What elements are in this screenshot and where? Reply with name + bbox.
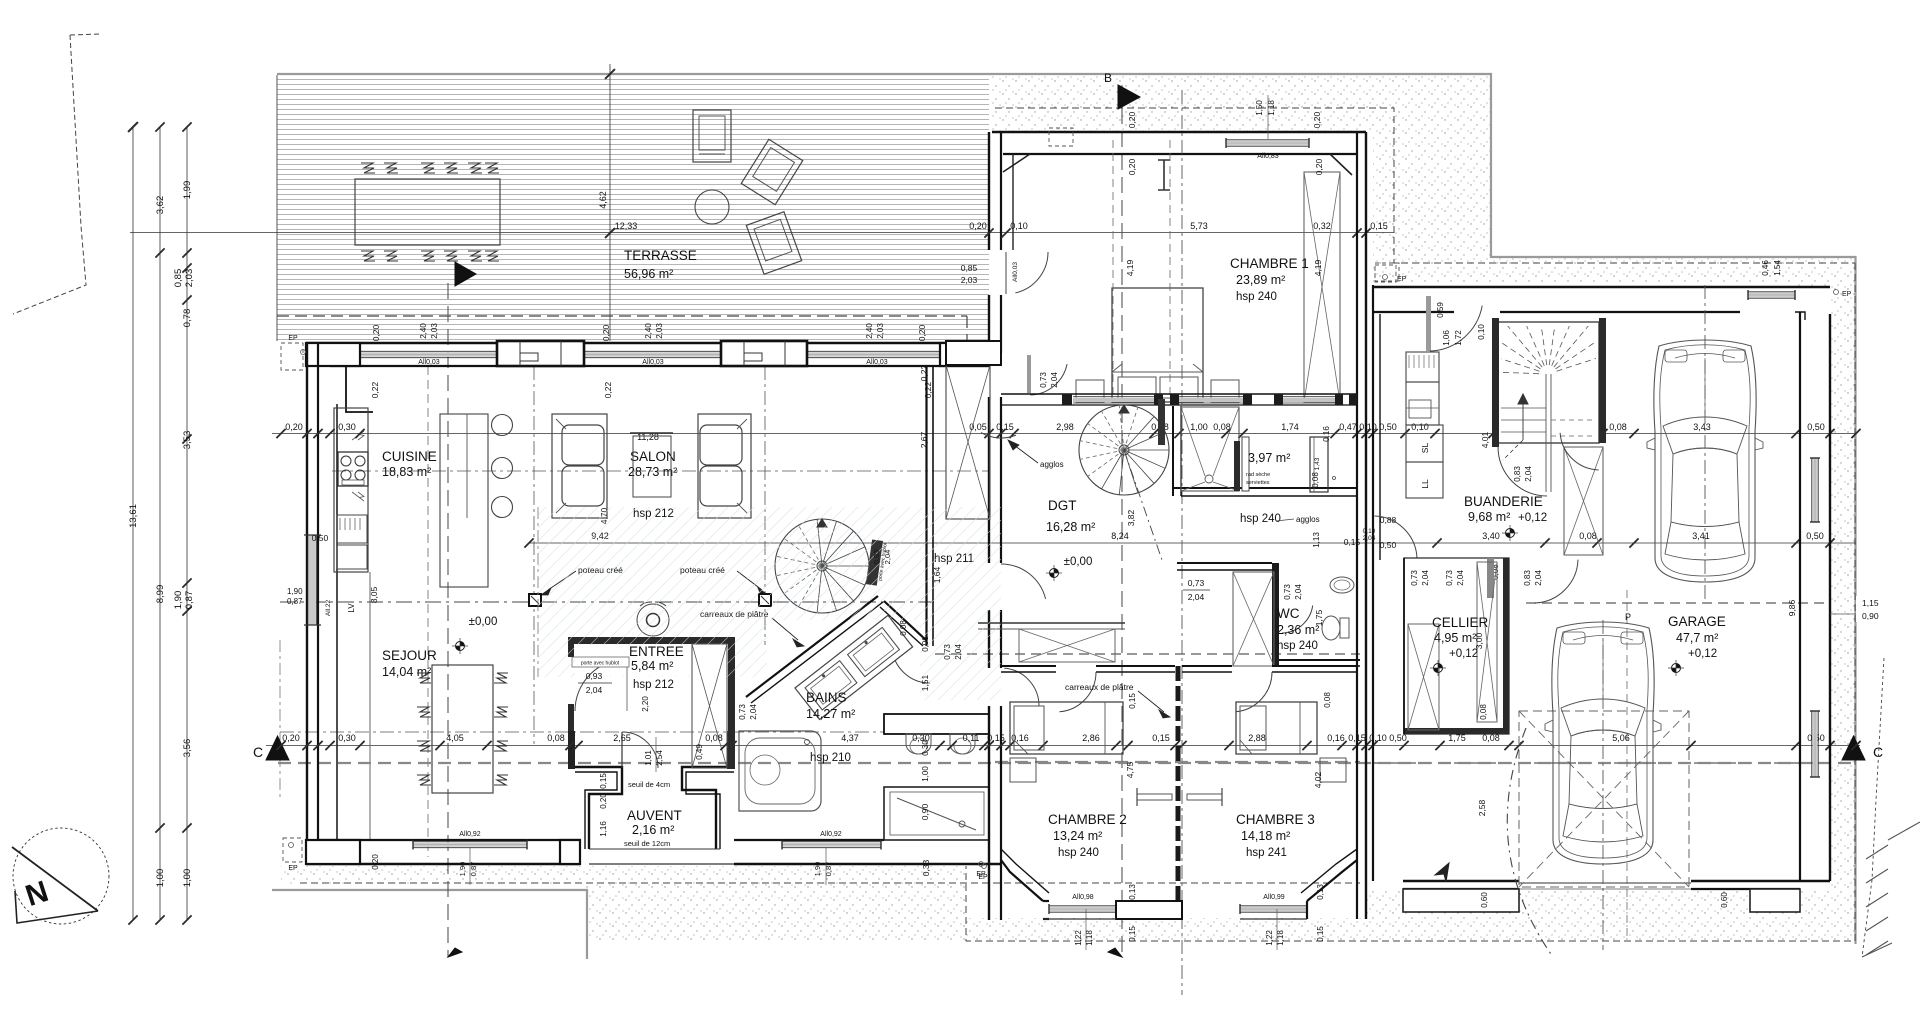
section line C horizontal heavy dashed [278, 762, 1853, 764]
south wall bains inner [734, 839, 884, 841]
svg-text:2,03: 2,03 [184, 269, 195, 288]
grid dashed through sejour y=602 [280, 601, 935, 603]
svg-text:1,43: 1,43 [1314, 457, 1321, 470]
svg-text:13,24 m²: 13,24 m² [1053, 829, 1102, 843]
bains diagonal wall [746, 596, 878, 697]
north wall post 1 [497, 341, 584, 366]
svg-text:1,99: 1,99 [182, 181, 193, 200]
svg-text:0,20: 0,20 [285, 422, 303, 432]
plot boundary dashed top-right [995, 108, 1855, 263]
bedroom south walls + chamfers [1001, 860, 1043, 901]
annex wardrobe X [1564, 447, 1603, 555]
hatch boundary dashdot [537, 507, 539, 677]
bains door arc SE [892, 646, 930, 683]
svg-text:All0,92: All0,92 [459, 831, 481, 838]
svg-text:0,20: 0,20 [917, 324, 927, 341]
svg-text:2,04: 2,04 [1421, 570, 1430, 586]
auvent recess left step wall [575, 767, 622, 849]
grid dashdot through salon y=478 [332, 470, 988, 472]
grid vertical dashdot x765 [764, 366, 766, 645]
svg-text:CHAMBRE 1: CHAMBRE 1 [1230, 256, 1309, 271]
svg-text:5,73: 5,73 [1190, 221, 1208, 231]
svg-text:hsp 212: hsp 212 [633, 679, 674, 691]
svg-text:4,75: 4,75 [1125, 761, 1135, 778]
svg-text:0,08: 0,08 [1311, 472, 1320, 488]
svg-text:4,62: 4,62 [598, 191, 608, 209]
car in garage bottom [1545, 622, 1661, 864]
chambre3 side table [1320, 758, 1346, 782]
plot boundary dashed below house [300, 882, 1360, 884]
bains window [782, 842, 881, 847]
svg-text:0,50: 0,50 [1379, 422, 1397, 432]
svg-text:serviettes: serviettes [1246, 480, 1270, 486]
svg-text:2,04: 2,04 [1524, 466, 1533, 482]
auvent door jamb left dark [568, 731, 575, 769]
svg-text:2,04: 2,04 [1050, 372, 1059, 388]
room 3,97 dark stub + towel radiator [1234, 441, 1240, 491]
stair lower treads [1501, 407, 1546, 409]
bains diagonal wall to east [884, 601, 927, 641]
salon sofa 1 [552, 414, 607, 518]
svg-text:hsp 241: hsp 241 [1246, 847, 1287, 859]
stippled ground texture top-right plot area [992, 76, 1855, 940]
north wall inner line [330, 365, 989, 367]
section line B vertical dashed [1121, 85, 1123, 957]
north wall corner block left [306, 343, 360, 366]
svg-text:1,15: 1,15 [1862, 598, 1879, 608]
svg-text:All0,03: All0,03 [642, 359, 664, 366]
svg-text:+0,12: +0,12 [1518, 512, 1547, 524]
svg-text:seuil de 4cm: seuil de 4cm [628, 780, 670, 789]
hall band windows grey [1073, 398, 1154, 403]
svg-text:0,83: 0,83 [1513, 466, 1522, 482]
svg-text:0,20: 0,20 [371, 324, 381, 341]
north wall post 2 [721, 341, 807, 366]
section marker A triangle [455, 262, 476, 286]
svg-text:2,04: 2,04 [749, 704, 758, 720]
south wall corner block left [306, 840, 360, 864]
svg-text:All0,83: All0,83 [1257, 153, 1279, 160]
svg-text:CHAMBRE 2: CHAMBRE 2 [1048, 812, 1127, 827]
svg-text:1,00: 1,00 [921, 766, 930, 782]
svg-text:2,16 m²: 2,16 m² [632, 823, 674, 837]
auvent door jamb right dark [727, 731, 734, 769]
svg-text:1,50: 1,50 [1255, 100, 1264, 116]
chambre1 side tables [1076, 380, 1104, 402]
svg-text:0,20: 0,20 [1314, 158, 1324, 175]
svg-text:0,73: 0,73 [1039, 372, 1048, 388]
terrace big table [355, 179, 500, 245]
junction wall block [946, 341, 1001, 365]
entree left jamb dark [568, 644, 574, 657]
svg-text:hsp 240: hsp 240 [1236, 291, 1277, 303]
north arrow compass [13, 828, 109, 924]
svg-text:0,83: 0,83 [1523, 570, 1532, 586]
entree right wall dark [728, 644, 735, 769]
svg-text:C: C [1873, 744, 1883, 760]
svg-text:2,86: 2,86 [1082, 733, 1100, 743]
svg-text:WC: WC [1277, 606, 1300, 621]
svg-text:1,00: 1,00 [1190, 422, 1208, 432]
grid dashed garage y=763 [1374, 762, 1830, 764]
svg-text:CELLIER: CELLIER [1432, 615, 1489, 630]
svg-text:0,73: 0,73 [738, 704, 747, 720]
svg-text:4,05: 4,05 [446, 733, 464, 743]
chambre3 chamfer [1307, 860, 1357, 901]
svg-text:3,53: 3,53 [182, 431, 193, 450]
svg-text:2,40: 2,40 [865, 323, 874, 339]
WC fixtures [1322, 616, 1340, 640]
chambre2 side table [1010, 758, 1036, 782]
svg-text:2,04: 2,04 [1534, 570, 1543, 586]
svg-text:CHAMBRE 3: CHAMBRE 3 [1236, 812, 1315, 827]
svg-text:2,04: 2,04 [1456, 570, 1465, 586]
svg-text:0,30: 0,30 [338, 733, 356, 743]
south wall sejour outer [306, 863, 580, 865]
svg-text:28,73 m²: 28,73 m² [628, 465, 677, 479]
garage steps below [1403, 889, 1519, 912]
svg-text:0,10: 0,10 [1477, 324, 1486, 340]
EP annex top [1375, 265, 1396, 282]
tiled floor hatch entree-hall [538, 507, 767, 677]
svg-text:0,73: 0,73 [943, 644, 952, 660]
chambre1 bed [1112, 288, 1203, 402]
svg-text:2,04: 2,04 [586, 685, 603, 695]
svg-text:EP: EP [1842, 291, 1852, 298]
hall top wall band (under chambre1) [1001, 393, 1357, 395]
svg-text:8,05: 8,05 [369, 586, 379, 603]
chambre2 door arc from corridor [1004, 668, 1039, 706]
svg-text:1,01: 1,01 [644, 750, 653, 766]
bedroom middle block [1116, 901, 1182, 919]
grid line x=610 through terrace [609, 64, 611, 341]
west wall interior lining [336, 404, 338, 840]
spiral staircase DGT [1079, 405, 1169, 495]
entree closet [692, 644, 727, 768]
svg-text:0,30: 0,30 [338, 422, 356, 432]
car in garage top [1647, 340, 1763, 582]
svg-text:3,62: 3,62 [155, 196, 166, 215]
svg-text:0,73: 0,73 [1445, 570, 1454, 586]
south wall bains outer [734, 863, 1001, 865]
svg-text:0,87: 0,87 [184, 591, 195, 610]
wing grid dashdot x=1182 [1181, 90, 1183, 995]
svg-text:0,08: 0,08 [899, 620, 908, 636]
svg-text:2,03: 2,03 [961, 275, 978, 285]
bedroom wall shelves [1137, 794, 1172, 800]
svg-text:C: C [253, 744, 263, 760]
svg-text:0,20: 0,20 [969, 221, 987, 231]
east wall of main house [925, 366, 927, 646]
salon dim bracket [630, 432, 673, 434]
svg-text:0,15: 0,15 [1344, 537, 1361, 547]
svg-text:0,90: 0,90 [1862, 611, 1879, 621]
svg-text:0,20: 0,20 [1127, 158, 1137, 175]
svg-text:All0,03: All0,03 [1012, 262, 1019, 282]
svg-text:1,75: 1,75 [1314, 609, 1324, 626]
DGT west door leaf + arc [1027, 355, 1031, 393]
junction closet X [946, 365, 990, 519]
svg-text:1,00: 1,00 [182, 869, 193, 888]
corridor door arcs west wing [981, 433, 1016, 438]
dimension line y=543 [529, 542, 1856, 544]
svg-text:EP: EP [1397, 276, 1407, 283]
chambre2 window [1049, 907, 1116, 912]
bedroom divider wall dashed heavy [1176, 666, 1181, 903]
svg-text:All0,92: All0,92 [820, 831, 842, 838]
svg-text:TERRASSE: TERRASSE [624, 248, 697, 263]
svg-text:1,72: 1,72 [1454, 330, 1463, 346]
svg-text:2,67: 2,67 [919, 431, 929, 448]
corridor door arc to DGT [1001, 564, 1046, 599]
svg-text:0,22: 0,22 [370, 381, 380, 398]
room 3,97 walls [1172, 406, 1174, 496]
svg-text:0,50: 0,50 [312, 533, 329, 543]
stair newel line [1545, 374, 1547, 492]
chambre1 inner chamfers [1003, 154, 1030, 172]
grid dashed bedrooms y=762 right part [995, 761, 1360, 763]
svg-text:0,11: 0,11 [963, 733, 980, 743]
auvent left block [560, 840, 580, 864]
sejour window [413, 842, 527, 847]
salon sofa 2 [698, 414, 751, 518]
auvent recess right step wall [682, 767, 734, 849]
stair up arrow [1522, 400, 1524, 440]
north wall glazing band [360, 352, 497, 357]
chambre3 bed [1236, 702, 1317, 754]
svg-text:3,41: 3,41 [1692, 531, 1710, 541]
svg-text:AUVENT: AUVENT [627, 808, 682, 823]
bedroom top walls [1001, 665, 1056, 667]
svg-text:+0,12: +0,12 [1688, 648, 1717, 660]
terrace decking [277, 76, 989, 340]
svg-text:3,97 m²: 3,97 m² [1248, 451, 1290, 465]
svg-text:0,20: 0,20 [599, 793, 608, 809]
svg-text:±0,00: ±0,00 [469, 616, 498, 628]
svg-text:4,95 m²: 4,95 m² [1434, 631, 1476, 645]
svg-text:0,15: 0,15 [1370, 221, 1388, 231]
stair under-door arc [1498, 447, 1547, 496]
svg-text:ENTREE: ENTREE [629, 644, 684, 659]
svg-text:2,98: 2,98 [1056, 422, 1074, 432]
svg-text:14,04 m²: 14,04 m² [382, 665, 431, 679]
svg-text:1,74: 1,74 [1281, 422, 1299, 432]
svg-text:0,33: 0,33 [921, 859, 931, 876]
svg-text:All0,98: All0,98 [1072, 894, 1094, 901]
wall-hung toilets in bains [906, 734, 931, 754]
svg-text:0,16: 0,16 [1322, 426, 1331, 442]
svg-text:0,85: 0,85 [961, 263, 978, 273]
chambre1 window top [1226, 139, 1309, 147]
svg-text:0,87: 0,87 [287, 597, 303, 606]
svg-text:1,22: 1,22 [1074, 930, 1083, 946]
svg-text:0,22: 0,22 [919, 364, 929, 381]
svg-text:0,30: 0,30 [921, 740, 930, 756]
svg-text:SALON: SALON [630, 449, 676, 464]
section line A vertical dashed [447, 283, 449, 957]
svg-text:14,27 m²: 14,27 m² [806, 707, 855, 721]
svg-text:agglos: agglos [1296, 515, 1320, 524]
dimension line y=745 [266, 745, 1860, 747]
svg-text:4,02: 4,02 [1313, 771, 1323, 788]
svg-text:0,08: 0,08 [1609, 422, 1627, 432]
door to garage arc [1535, 560, 1578, 603]
svg-text:0,16: 0,16 [1327, 733, 1345, 743]
bedroom door arcs [1060, 672, 1097, 712]
vanity along diagonal [795, 615, 913, 719]
stair-under door arc [1560, 433, 1599, 470]
grid vertical dashdot x534 [533, 366, 535, 744]
svg-text:2,03: 2,03 [655, 323, 664, 339]
chambre1 wardrobe X [1304, 172, 1340, 402]
svg-text:2,65: 2,65 [613, 733, 631, 743]
grid dashed bedrooms y=654 [935, 653, 1360, 655]
svg-text:0,73: 0,73 [1410, 570, 1419, 586]
annex east windows [1813, 458, 1818, 522]
svg-text:P: P [1625, 612, 1631, 622]
svg-text:23,89 m²: 23,89 m² [1236, 273, 1285, 287]
neighbour boundary right [1862, 658, 1884, 957]
water heater circle [637, 604, 669, 636]
terrace west edge line [276, 75, 278, 341]
terrace table chairs [361, 163, 375, 173]
sejour chairs [417, 673, 431, 683]
svg-text:All0,03: All0,03 [866, 359, 888, 366]
WC closet X [1233, 572, 1274, 666]
svg-text:1,54: 1,54 [1773, 260, 1782, 276]
svg-text:3,56: 3,56 [182, 739, 193, 758]
svg-text:0,87: 0,87 [824, 862, 833, 877]
svg-text:2,40: 2,40 [419, 323, 428, 339]
svg-text:12,33: 12,33 [615, 221, 638, 231]
annex top wall [1373, 286, 1830, 288]
svg-text:0,08: 0,08 [1579, 531, 1597, 541]
svg-text:0,08: 0,08 [1323, 692, 1332, 708]
kitchen stools [492, 415, 513, 436]
svg-text:SL: SL [1420, 443, 1430, 454]
svg-text:0,15: 0,15 [987, 733, 1005, 743]
svg-text:0,50: 0,50 [1806, 531, 1824, 541]
svg-text:47,7 m²: 47,7 m² [1676, 631, 1718, 645]
buanderie door arc top [1430, 306, 1482, 351]
svg-text:0,73: 0,73 [1283, 584, 1292, 600]
terrace armchair 1 [693, 110, 731, 162]
kitchen stove [338, 452, 368, 486]
east wall of house / west wall of wing [988, 132, 990, 250]
WC walls [1177, 562, 1272, 564]
svg-text:0,13: 0,13 [1316, 884, 1325, 900]
svg-text:0,13: 0,13 [1128, 884, 1137, 900]
cellier X closets [1408, 624, 1439, 730]
svg-text:9,86: 9,86 [1787, 599, 1797, 616]
svg-text:18,83 m²: 18,83 m² [382, 465, 431, 479]
svg-text:±0,00: ±0,00 [1064, 556, 1093, 568]
svg-text:1,64: 1,64 [932, 566, 942, 583]
west wall axis dashdot x280 [279, 640, 281, 800]
svg-text:0,20: 0,20 [601, 324, 611, 341]
kitchen sink [337, 515, 367, 543]
chambre1 door arc [1015, 252, 1048, 293]
annex east wall [1799, 312, 1801, 881]
svg-text:0,60: 0,60 [1720, 892, 1729, 908]
svg-text:0,20: 0,20 [1127, 111, 1137, 128]
plot line grey bottom-left step [272, 890, 587, 959]
entree top wall dark [568, 637, 735, 644]
poteau squares [529, 594, 541, 606]
svg-text:3,00: 3,00 [1474, 632, 1484, 649]
shower tray [884, 787, 989, 840]
svg-text:0,22: 0,22 [923, 381, 933, 398]
svg-text:2,88: 2,88 [1248, 733, 1266, 743]
svg-text:1,90: 1,90 [287, 587, 303, 596]
svg-text:EP: EP [288, 865, 298, 872]
tiled floor hatch bains top / corridor [767, 507, 1001, 700]
wing east wall [1356, 132, 1358, 919]
svg-text:EP: EP [288, 335, 298, 342]
annex NE corner step [1795, 312, 1805, 320]
svg-text:All.22: All.22 [325, 599, 332, 616]
plot boundary dashed right + bottom [966, 263, 1855, 941]
dimension line y=433 [272, 433, 1856, 435]
west wall [306, 343, 308, 864]
svg-text:0,50: 0,50 [1807, 422, 1825, 432]
DGT stair guard dark [1158, 399, 1165, 445]
svg-text:0,10: 0,10 [1411, 422, 1429, 432]
svg-text:4,19: 4,19 [1313, 259, 1323, 276]
svg-text:EP: EP [976, 871, 986, 878]
svg-text:1,90: 1,90 [813, 862, 822, 877]
salon low table [633, 436, 671, 497]
svg-text:0,08: 0,08 [1479, 704, 1488, 720]
chambre1 chimney bracket [1158, 160, 1170, 190]
svg-text:All0,03: All0,03 [418, 359, 440, 366]
svg-text:porte avec hublot: porte avec hublot [581, 661, 620, 667]
section marker C left [266, 736, 289, 760]
svg-text:0,90: 0,90 [920, 803, 930, 820]
svg-text:LV: LV [347, 603, 356, 613]
hall band dark posts [1062, 394, 1072, 405]
svg-text:2,03: 2,03 [876, 323, 885, 339]
north wall east block [940, 343, 989, 366]
shower niche wall band [884, 714, 989, 734]
svg-text:0,78: 0,78 [182, 309, 193, 328]
svg-text:2,04: 2,04 [1294, 584, 1303, 600]
dimension line y=232 [130, 232, 1394, 234]
stair room [1498, 322, 1599, 443]
bains diagonal door bar dark [866, 540, 883, 586]
left vertical dimension chain lines [132, 127, 134, 920]
kitchen counter along west wall [334, 408, 368, 572]
svg-text:3,40: 3,40 [1482, 531, 1500, 541]
buanderie sink unit [1406, 352, 1439, 382]
svg-text:1,00: 1,00 [155, 869, 166, 888]
svg-text:0,15: 0,15 [599, 773, 608, 789]
svg-text:1,90: 1,90 [458, 862, 467, 877]
bathtub [739, 731, 821, 811]
svg-text:0,50: 0,50 [1380, 540, 1397, 550]
svg-text:All0,99: All0,99 [1263, 894, 1285, 901]
svg-text:2,20: 2,20 [641, 696, 650, 712]
grid dashed garage door line y=603 [1526, 602, 1830, 604]
svg-text:3,43: 3,43 [1693, 422, 1711, 432]
svg-text:0,05: 0,05 [969, 422, 987, 432]
chambre2 bed [1010, 702, 1123, 754]
svg-text:seuil de 12cm: seuil de 12cm [624, 839, 670, 848]
terrace armchair 3 [746, 212, 801, 275]
entree lower left jamb dark [568, 704, 574, 731]
svg-text:4,19: 4,19 [1125, 259, 1135, 276]
porte avec hublot label box [572, 657, 629, 667]
